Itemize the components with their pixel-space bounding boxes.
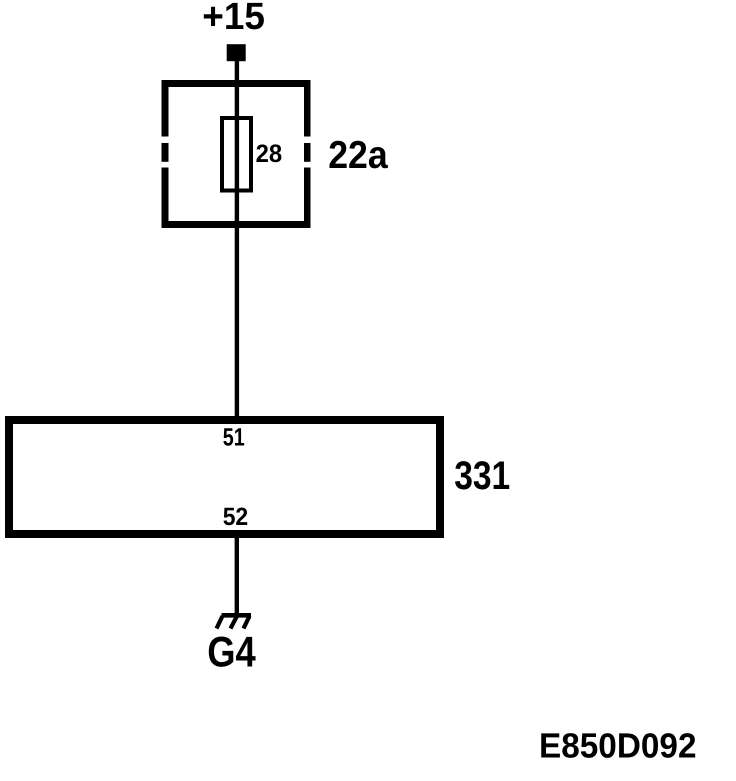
svg-text:28: 28 — [256, 140, 283, 168]
fuse holder box 22a right dashed edge — [304, 80, 311, 228]
svg-text:51: 51 — [223, 423, 245, 451]
svg-text:52: 52 — [223, 503, 249, 531]
fuse holder box 22a top edge — [162, 80, 311, 87]
fuse F28 symbol — [222, 118, 251, 191]
svg-text:E850D092: E850D092 — [539, 727, 697, 766]
svg-text:331: 331 — [454, 454, 510, 498]
component box 331 — [9, 420, 440, 534]
svg-text:22a: 22a — [328, 134, 388, 177]
fuse holder box 22a left dashed edge — [162, 80, 169, 228]
svg-text:+15: +15 — [202, 0, 265, 38]
terminal square for +15 supply — [227, 44, 246, 61]
ground symbol G4 — [217, 613, 252, 629]
wire from +15 terminal through fuse to pin 51 — [235, 58, 239, 416]
svg-text:G4: G4 — [207, 629, 256, 677]
wire from pin 52 to ground — [235, 538, 239, 614]
fuse holder box 22a bottom edge — [162, 221, 311, 228]
